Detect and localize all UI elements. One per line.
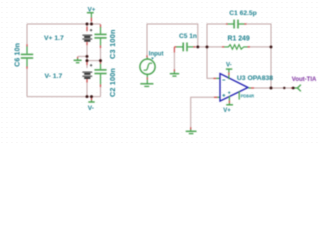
wire battery mid [86, 56, 88, 60]
op-amp V- power pin (top) [226, 69, 232, 79]
junction output port terminal [292, 87, 295, 90]
junction C3/C2 midpoint [99, 59, 102, 62]
ground (C5 left) [170, 69, 179, 76]
output port lead [291, 87, 293, 89]
svg-text:V+: V+ [88, 6, 96, 13]
capacitor C5 [174, 43, 195, 52]
op-amp U3 triangle [220, 74, 248, 102]
wire to mid ground [78, 55, 87, 57]
wire C1 left branch [207, 24, 226, 47]
svg-text:V-: V- [88, 105, 94, 112]
svg-text:Input: Input [149, 51, 164, 57]
source VG1 (Input) [140, 55, 155, 86]
svg-text:C2 100n: C2 100n [108, 68, 117, 97]
junction R1 to feedback vertical [270, 45, 273, 48]
op-amp plus marker [222, 94, 225, 97]
ground (battery midpoint) [74, 57, 82, 63]
svg-text:V-: V- [226, 62, 232, 68]
op-amp PD pin stub [238, 91, 240, 99]
wire R1 right [250, 46, 271, 48]
svg-text:C1 62.5p: C1 62.5p [229, 10, 257, 17]
battery V- 1.7 (B2) [82, 61, 92, 97]
resistor R1 [222, 45, 250, 50]
op-amp inverting pin [213, 77, 216, 79]
capacitor C6 [21, 44, 33, 69]
wire input top [147, 24, 198, 55]
op-amp output pin [248, 87, 251, 89]
junction B2 bottom on V- rail [86, 95, 89, 98]
junction node A input/C5 [196, 45, 199, 48]
power plus marker [228, 92, 230, 94]
wire output [254, 87, 291, 89]
wire left vertical upper [26, 24, 28, 44]
input label arrow [151, 57, 154, 59]
wire feedback vertical to output [270, 47, 272, 88]
op-amp minus marker [222, 79, 225, 81]
junction V- symbol on bottom rail [90, 95, 93, 98]
svg-text:C3 100n: C3 100n [108, 29, 117, 59]
svg-text:PD84R: PD84R [241, 94, 255, 99]
wire non-inverting input [191, 97, 214, 127]
wire node A row [196, 46, 222, 48]
wire mid rail [87, 60, 101, 62]
capacitor C3 [94, 24, 106, 60]
battery V+ 1.7 (B1) [82, 24, 92, 56]
svg-text:V+: V+ [223, 108, 231, 114]
svg-text:C6 10n: C6 10n [15, 43, 22, 67]
svg-text:Vout-TIA: Vout-TIA [292, 77, 317, 83]
wire top rail [27, 23, 101, 25]
junction output wire segment [283, 87, 285, 89]
wire C5 to ground [173, 47, 175, 53]
junction battery midpoint ground tap [86, 55, 89, 58]
op-amp non-inverting pin [214, 96, 218, 98]
capacitor C1 [226, 20, 247, 29]
wire left vertical lower [26, 69, 28, 97]
background grid [0, 0, 320, 144]
junction B2 top on mid rail [86, 59, 89, 62]
svg-text:R1 249: R1 249 [228, 36, 250, 43]
capacitor C2 [94, 61, 106, 96]
svg-text:V+ 1.7: V+ 1.7 [44, 35, 64, 42]
wire bottom rail [27, 96, 101, 98]
junction V+ symbol on top rail [90, 23, 93, 26]
ground (non-inverting) [186, 127, 197, 133]
power symbol V+ [87, 13, 94, 24]
svg-text:V- 1.7: V- 1.7 [45, 73, 63, 80]
output port symbol [294, 85, 301, 92]
wire C1 right to feedback vertical [247, 24, 272, 47]
power symbol V- (bottom) [88, 97, 94, 102]
junction node A feedback branch [206, 45, 209, 48]
svg-text:U3 OPA838: U3 OPA838 [237, 75, 273, 82]
op-amp V+ power pin (bottom) [226, 96, 233, 105]
junction feedback on output wire [270, 87, 273, 90]
junction B1 top on V+ rail [86, 23, 89, 26]
svg-text:C5 1n: C5 1n [179, 33, 197, 40]
wire inverting input [207, 47, 214, 79]
